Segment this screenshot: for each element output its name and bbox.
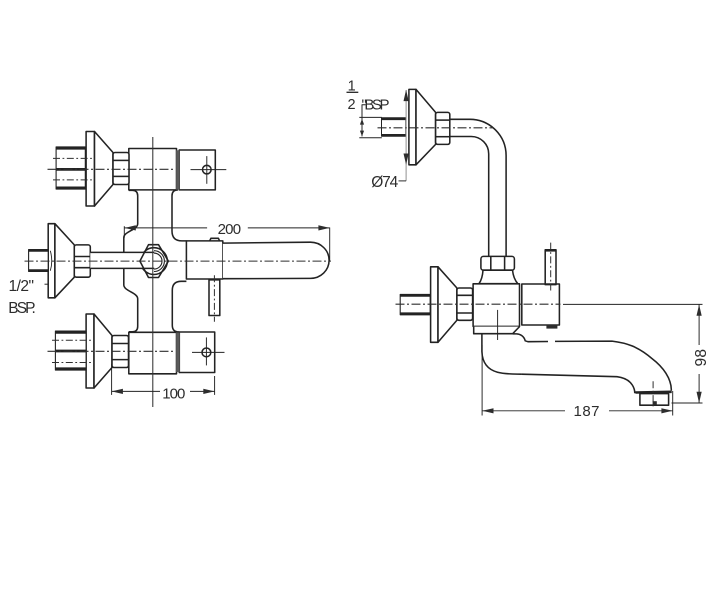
middle union tail — [29, 250, 52, 272]
middle union / spout center line — [25, 260, 332, 262]
lever rod — [545, 250, 556, 285]
top-left union cone — [95, 132, 114, 207]
spout bottom edge — [522, 374, 635, 393]
svg-text:100: 100 — [162, 385, 185, 402]
top tail thread center lines — [53, 158, 95, 180]
bottom wall flange plate — [179, 332, 214, 373]
diverter block — [186, 241, 222, 279]
pipe end cap arcs — [154, 251, 164, 272]
top union center line — [48, 168, 175, 170]
wall union center line — [378, 127, 494, 129]
bottom plate screw — [192, 337, 225, 365]
valve: side cone — [438, 267, 457, 343]
top wall flange plate — [179, 150, 215, 190]
lever rod center line — [550, 243, 552, 291]
top leg-plate junction strip — [176, 150, 180, 189]
bottom-left union flange bar — [86, 314, 94, 388]
bottom leg of body — [129, 332, 177, 374]
dimension 187 — [482, 345, 673, 416]
top leg of body — [129, 149, 177, 190]
spout top edge — [513, 334, 672, 391]
diameter 74 dimension — [399, 90, 409, 181]
supply pipe bend — [450, 119, 506, 256]
top plate screw — [191, 156, 227, 184]
dimension 98 — [672, 305, 703, 404]
set screw under block — [546, 325, 557, 329]
svg-text:1/2": 1/2" — [9, 278, 35, 295]
middle supply pipe — [90, 252, 154, 268]
outlet center line — [652, 381, 654, 407]
98 top extension line — [563, 303, 703, 305]
dimension 100 — [112, 364, 215, 395]
valve top nut — [481, 256, 515, 270]
valve body — [473, 284, 519, 327]
wall cone (side) — [416, 89, 436, 164]
leader tick near 1/2 BSP — [45, 283, 49, 285]
stem center line — [213, 275, 215, 322]
valve body vertical mark — [497, 310, 499, 340]
center hex boss — [140, 245, 169, 278]
valve center line — [396, 303, 561, 305]
bottom leg-plate junction strip — [176, 333, 180, 373]
right block (spout holder) — [522, 284, 560, 325]
middle union cone — [55, 224, 74, 298]
bottom-left threaded tail — [55, 331, 86, 370]
handle/spout (front) — [223, 242, 329, 279]
top-left union flange bar — [86, 132, 94, 207]
svg-text:2: 2 — [348, 97, 356, 113]
body vertical center line — [152, 137, 154, 407]
spout root left edge — [482, 334, 522, 374]
dimension 200 — [124, 225, 329, 261]
top-left union nut — [113, 153, 129, 185]
middle union nut — [74, 245, 90, 277]
middle union flange bar — [48, 224, 55, 298]
wall flange plate (side) — [409, 89, 416, 164]
diverter stem — [209, 280, 220, 316]
svg-text:BSP.: BSP. — [8, 300, 36, 317]
valve body foot — [474, 327, 520, 334]
svg-text:200: 200 — [218, 221, 242, 238]
top-left threaded tail — [56, 147, 85, 189]
svg-text:"BSP: "BSP — [362, 97, 390, 114]
center boss outer circle — [141, 248, 168, 275]
body waist right profile — [172, 190, 186, 332]
spout outlet — [640, 394, 669, 406]
bottom union center line — [48, 350, 175, 352]
block top bump — [210, 238, 220, 241]
bottom-left union cone — [94, 314, 112, 388]
valve: side flange bar — [431, 267, 438, 343]
svg-text:98: 98 — [693, 349, 710, 367]
valve: side tail — [400, 294, 430, 314]
outlet insert — [653, 401, 657, 405]
outlet collar edge — [636, 390, 672, 393]
svg-text:187: 187 — [574, 403, 600, 420]
1/2 BSP dimension (right) — [359, 105, 382, 138]
bottom tail thread center lines — [52, 340, 94, 362]
wall threaded tail (side) — [382, 118, 406, 137]
wall nut (side) — [436, 112, 450, 144]
valve bonnet — [479, 270, 518, 283]
valve: side nut — [457, 288, 473, 320]
svg-text:Ø74: Ø74 — [371, 174, 398, 191]
bottom-left union nut — [112, 336, 129, 368]
body waist left profile — [124, 190, 138, 331]
